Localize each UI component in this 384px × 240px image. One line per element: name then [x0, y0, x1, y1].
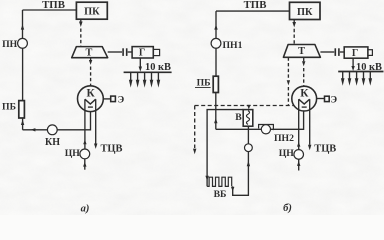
- svg-text:ЦН: ЦН: [65, 148, 81, 159]
- wire: network water supply to ВБ: [207, 110, 243, 187]
- wire: ПН1 up to top line: [215, 11, 217, 38]
- condenser К: [78, 86, 104, 112]
- water level dash: [302, 106, 307, 108]
- svg-text:б): б): [283, 203, 292, 214]
- cooling coil M shape: [85, 99, 96, 104]
- svg-text:К: К: [300, 88, 309, 100]
- svg-text:ПБ: ПБ: [2, 101, 16, 112]
- wire: network water return: [233, 152, 249, 196]
- wire: steam line ПК to turbine (dashed): [80, 19, 82, 21]
- pump ПН1: [211, 38, 221, 48]
- svg-text:В: В: [235, 112, 242, 123]
- cooling water discharge ТЦВ: [309, 99, 311, 145]
- wire: shaft turbine-generator: [108, 51, 122, 53]
- cooling coil M shape: [299, 99, 310, 104]
- condenser К: [292, 86, 317, 111]
- coupling: [122, 48, 124, 56]
- wire: to tank ПБ: [22, 118, 24, 130]
- svg-text:ПК: ПК: [84, 7, 100, 18]
- wire: ejector line: [103, 98, 110, 100]
- pump ПН2: [261, 125, 270, 134]
- wire: steam branch into heater В: [248, 105, 250, 107]
- tank ПБ: [19, 101, 25, 118]
- svg-text:Э: Э: [118, 94, 125, 105]
- tank ПБ: [213, 76, 218, 92]
- svg-text:а): а): [81, 204, 90, 215]
- wire: ejector line: [317, 98, 325, 100]
- wire: steam to other consumers (dashed): [194, 106, 196, 149]
- wire: condensate drain to КН: [23, 112, 91, 130]
- wire: steam turbine to condenser (dashed): [90, 58, 92, 60]
- boiler ПК: [290, 2, 321, 19]
- wire: condensate line К to riser: [216, 111, 304, 130]
- svg-text:ТЦВ: ТЦВ: [101, 143, 123, 154]
- coupling: [335, 48, 337, 56]
- wire: feedwater top line to boiler: [216, 10, 290, 12]
- wire: riser to tank ПБ: [215, 93, 217, 130]
- wire: steam extraction from turbine (dashed): [287, 57, 289, 80]
- svg-text:ТПВ: ТПВ: [42, 0, 65, 11]
- turbine Т: [72, 47, 108, 58]
- svg-text:ЦН: ЦН: [279, 148, 295, 159]
- generator Г: [132, 47, 153, 58]
- svg-text:К: К: [86, 88, 95, 100]
- svg-text:Г: Г: [139, 48, 145, 59]
- svg-text:ВБ: ВБ: [214, 189, 227, 200]
- cooling water left leg with pump ЦН: [84, 99, 86, 149]
- feeder arrows: [341, 72, 372, 86]
- wire: steam line ПК to turbine (dashed): [293, 20, 295, 23]
- pump ЦН: [294, 150, 304, 160]
- wire: ПН up to top line: [22, 10, 24, 38]
- svg-text:Э: Э: [331, 94, 338, 105]
- busbar 10 kV: [338, 71, 383, 73]
- svg-text:ПН1: ПН1: [223, 40, 243, 51]
- wire: pump to heater В: [247, 126, 249, 144]
- svg-text:ПК: ПК: [297, 7, 313, 18]
- pump ЦН: [80, 149, 90, 159]
- wire: steam turbine to condenser (dashed): [303, 57, 305, 61]
- hood over pump ПН2: [259, 125, 274, 131]
- wire: ПБ to pump ПН: [22, 48, 24, 100]
- turbine Т: [283, 45, 320, 58]
- svg-text:Т: Т: [298, 46, 305, 57]
- svg-text:КН: КН: [45, 137, 60, 148]
- wire: water intake below ЦН: [298, 159, 300, 170]
- feeder arrows: [129, 72, 160, 87]
- boiler ПК: [76, 2, 107, 19]
- water level dash: [88, 106, 93, 108]
- cooling water left leg with pump ЦН: [298, 99, 300, 149]
- wire: water intake below ЦН: [84, 159, 86, 170]
- heater В: [243, 110, 253, 127]
- svg-text:ТЦВ: ТЦВ: [314, 143, 336, 154]
- svg-text:ПН: ПН: [2, 39, 18, 50]
- wire: feedwater top line to boiler: [23, 9, 77, 11]
- wire: shaft turbine-generator: [320, 51, 334, 53]
- svg-text:ТПВ: ТПВ: [244, 0, 267, 11]
- busbar 10 kV: [124, 71, 172, 73]
- wire: generator to busbar: [352, 58, 354, 66]
- ejector Э: [111, 96, 116, 102]
- svg-text:Г: Г: [352, 48, 358, 59]
- wire: generator to busbar: [139, 58, 141, 67]
- ejector Э: [325, 96, 330, 101]
- pump ПН: [18, 38, 28, 48]
- network pump: [245, 144, 253, 152]
- radiator ВБ: [207, 177, 232, 186]
- wire: extraction steam header (dashed): [195, 105, 294, 107]
- cooling water discharge ТЦВ: [95, 99, 97, 143]
- wire: ПБ to pump ПН1: [215, 48, 217, 76]
- svg-text:Т: Т: [85, 48, 92, 59]
- generator Г: [344, 47, 368, 58]
- svg-text:ПБ: ПБ: [197, 78, 211, 89]
- pump КН: [47, 125, 57, 135]
- svg-text:ПН2: ПН2: [274, 133, 294, 144]
